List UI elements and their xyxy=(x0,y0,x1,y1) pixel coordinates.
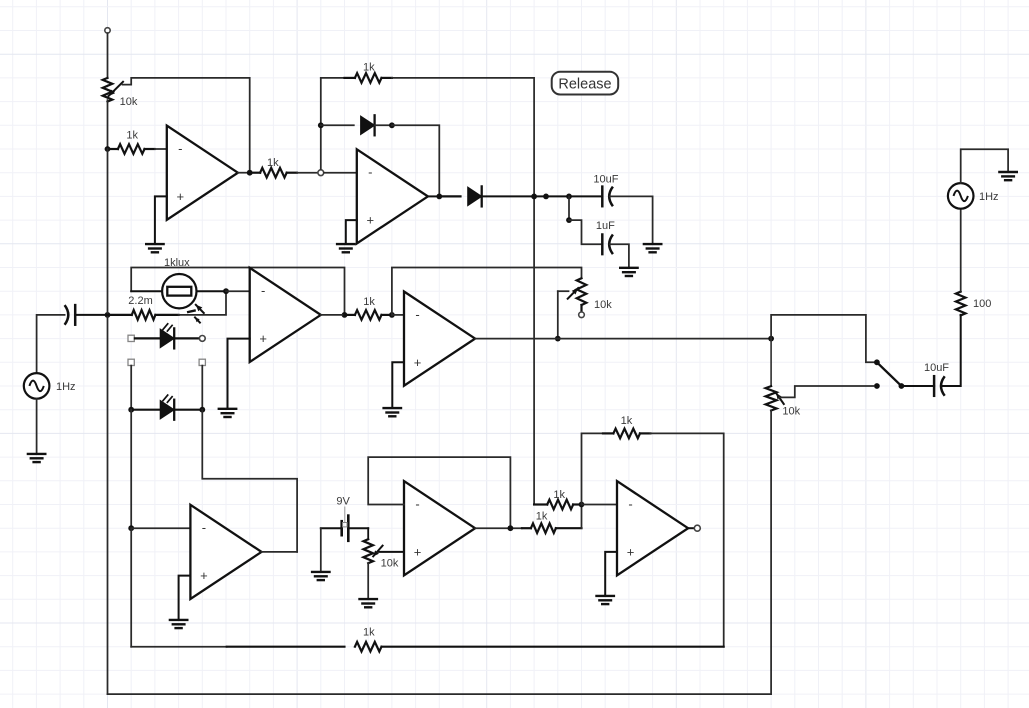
wire xyxy=(76,314,108,316)
wire (bus up to switch) xyxy=(771,315,874,362)
wire xyxy=(37,315,65,373)
wire (pot1 wiper to op-amp U1 output) xyxy=(123,78,250,173)
wire xyxy=(201,366,203,410)
svg-text:2.2m: 2.2m xyxy=(128,295,152,307)
wire (U4 output bus) xyxy=(475,338,771,340)
ground xyxy=(337,244,354,252)
node xyxy=(318,122,324,128)
wire xyxy=(581,505,583,529)
wire xyxy=(482,195,534,197)
svg-text:+: + xyxy=(414,544,422,559)
wire xyxy=(107,33,109,78)
ground xyxy=(146,244,163,252)
ground xyxy=(597,596,614,604)
node (open junction) xyxy=(318,170,324,176)
wire (U7 output) xyxy=(688,527,694,529)
svg-text:+: + xyxy=(259,331,267,346)
LED D4 (row 2) xyxy=(131,395,202,420)
wire xyxy=(375,124,392,126)
svg-text:+: + xyxy=(627,544,635,559)
wire (pot wiper to signal bus) xyxy=(558,291,569,338)
wire xyxy=(610,196,653,243)
svg-text:1Hz: 1Hz xyxy=(979,191,999,203)
node xyxy=(531,194,537,200)
wire (pot2 wiper to switch) xyxy=(780,386,875,397)
terminal (pot open end) xyxy=(579,312,585,318)
node xyxy=(566,194,572,200)
capacitor C1 (input coupling) xyxy=(65,305,76,325)
wire (U4 + to ground) xyxy=(392,362,404,408)
svg-text:-: - xyxy=(368,165,372,180)
svg-text:1k: 1k xyxy=(536,510,548,522)
op-amp U6 xyxy=(404,481,475,575)
wire xyxy=(130,528,132,647)
wire (U5 + to ground) xyxy=(179,576,191,620)
battery V1 9V xyxy=(321,495,368,540)
diode D2 (U2 output) xyxy=(468,186,482,206)
svg-text:Release: Release xyxy=(558,76,611,92)
op-amp U7 xyxy=(617,481,688,575)
ground xyxy=(219,409,236,417)
resistor 1k (bottom loop) xyxy=(227,627,724,652)
svg-text:1k: 1k xyxy=(363,62,375,74)
resistor 1k (U7 feedback) xyxy=(603,415,650,438)
wire xyxy=(392,125,439,196)
svg-text:10k: 10k xyxy=(381,558,399,570)
wire xyxy=(130,366,132,410)
potentiometer 10k (vertical) with wiper arrow xyxy=(103,78,138,108)
terminal (output) xyxy=(694,525,700,531)
wire xyxy=(534,195,602,197)
voltage source V2 1Hz (right) xyxy=(948,183,999,209)
wire xyxy=(297,172,318,174)
wire (U6 output) xyxy=(475,527,522,529)
potentiometer 10k (release pot) with wiper arrow xyxy=(766,339,801,418)
op-amp U3 xyxy=(250,268,321,362)
ground xyxy=(999,172,1016,180)
wire xyxy=(392,78,534,505)
svg-text:1k: 1k xyxy=(126,130,138,142)
node xyxy=(199,407,205,413)
switch SW1 (SPDT) xyxy=(874,359,904,389)
voltage source V3 1Hz (input) xyxy=(24,373,76,399)
svg-text:1klux: 1klux xyxy=(164,257,190,269)
op-amp U5 xyxy=(190,505,261,599)
wire xyxy=(36,399,38,454)
wire (U1 output) xyxy=(238,172,250,174)
node xyxy=(128,407,134,413)
wire xyxy=(961,149,1008,183)
wire xyxy=(226,290,250,292)
node xyxy=(579,502,585,508)
svg-text:-: - xyxy=(261,283,265,298)
wire xyxy=(131,646,227,648)
wire xyxy=(960,209,962,291)
ground xyxy=(620,268,637,276)
wire (U7 + to ground) xyxy=(605,552,617,596)
resistor 2.2m (input) xyxy=(108,295,179,320)
wire (photoresistor feedback) xyxy=(131,268,344,315)
wire xyxy=(107,100,109,149)
svg-text:+: + xyxy=(200,568,208,583)
potentiometer 10k (offset) with wiper arrow xyxy=(363,528,398,569)
svg-text:100: 100 xyxy=(973,298,991,310)
svg-text:1uF: 1uF xyxy=(596,220,615,232)
node xyxy=(223,288,229,294)
terminal (square, LED1 anode) xyxy=(128,335,134,341)
node xyxy=(555,336,561,342)
potentiometer 10k (U4 gain) with wiper arrow xyxy=(568,278,613,312)
wire (outer loop) xyxy=(108,411,772,695)
svg-text:1k: 1k xyxy=(267,157,279,169)
resistor 1k (U6 to U7) xyxy=(522,510,582,533)
svg-text:1k: 1k xyxy=(553,489,565,501)
node xyxy=(389,312,395,318)
photoresistor 1klux xyxy=(131,257,226,323)
wire xyxy=(179,291,226,315)
wire xyxy=(650,433,723,646)
wire xyxy=(321,77,345,79)
node xyxy=(105,312,111,318)
wire xyxy=(367,563,369,599)
node xyxy=(543,194,549,200)
wire (vertical from junction up) xyxy=(320,78,322,169)
node xyxy=(389,122,395,128)
resistor 1k (U2 feedback) xyxy=(345,62,392,83)
svg-text:-: - xyxy=(202,520,206,535)
resistor 100 (vertical) xyxy=(956,292,991,316)
wire xyxy=(131,527,190,529)
terminal (square, left) xyxy=(128,359,134,365)
svg-text:-: - xyxy=(415,497,419,512)
wire (pot wiper to U6 +) xyxy=(379,551,404,553)
svg-text:+: + xyxy=(177,189,185,204)
op-amp U2 xyxy=(357,149,428,243)
ground xyxy=(360,599,377,607)
node xyxy=(105,146,111,152)
wire (U2 output) xyxy=(428,195,439,197)
capacitor 10uF (right) xyxy=(924,362,949,396)
wire (battery - to ground) xyxy=(320,528,322,571)
ground xyxy=(170,620,187,628)
capacitor 1uF xyxy=(596,220,615,254)
wire xyxy=(610,244,629,267)
terminal (top-left input) xyxy=(105,28,110,33)
wire (U6 - input) xyxy=(368,457,510,528)
node xyxy=(247,170,253,176)
node xyxy=(342,312,348,318)
node xyxy=(128,525,134,531)
svg-text:10uF: 10uF xyxy=(924,362,949,374)
wire xyxy=(941,315,960,386)
svg-text:10k: 10k xyxy=(594,299,612,311)
resistor 1k (U1 inverting input) xyxy=(108,130,155,154)
resistor 1k (U3 to U4) xyxy=(345,296,392,320)
wire xyxy=(439,195,460,197)
op-amp U1 xyxy=(167,126,238,220)
svg-text:1Hz: 1Hz xyxy=(56,381,76,393)
wire (U1 + to ground) xyxy=(155,196,167,243)
ground xyxy=(644,244,661,252)
ground xyxy=(312,572,329,580)
wire xyxy=(901,385,934,387)
node xyxy=(566,217,572,223)
resistor 1k (U7 input) xyxy=(534,489,581,509)
label Release (annotation badge) xyxy=(552,72,619,95)
wire xyxy=(321,124,354,126)
wire (U3 output) xyxy=(321,314,345,316)
svg-text:10k: 10k xyxy=(782,405,800,417)
svg-text:-: - xyxy=(178,141,182,156)
wire xyxy=(130,410,132,529)
svg-text:10uF: 10uF xyxy=(593,173,618,185)
resistor 1k (U1 to U2) xyxy=(250,157,297,178)
wire xyxy=(324,172,357,174)
svg-text:-: - xyxy=(628,497,632,512)
wire (to 1uF) xyxy=(568,196,570,220)
diode D1 (U2 clamp) xyxy=(361,115,375,135)
svg-text:+: + xyxy=(367,213,375,228)
wire (U3 + to ground) xyxy=(228,339,250,409)
wire (U7 feedback) xyxy=(582,433,604,504)
svg-text:+: + xyxy=(414,355,422,370)
wire (U5 output) xyxy=(262,551,298,553)
wire (U2 + to ground) xyxy=(346,220,357,244)
capacitor 10uF (top) xyxy=(593,173,618,206)
wire (U4 feedback up) xyxy=(392,268,582,315)
wire (long vertical left rail) xyxy=(107,149,109,694)
node xyxy=(508,525,514,531)
ground xyxy=(28,454,45,462)
terminal (circle, LED1 cathode) xyxy=(199,336,205,342)
wire (LED2 to U5 loop) xyxy=(202,410,297,552)
svg-text:1k: 1k xyxy=(363,296,375,308)
svg-text:-: - xyxy=(415,307,419,322)
wire xyxy=(392,314,404,316)
wire xyxy=(569,220,602,244)
svg-text:1k: 1k xyxy=(363,627,375,639)
terminal (square, right) xyxy=(199,359,205,365)
node xyxy=(436,194,442,200)
wire xyxy=(155,148,167,150)
ground xyxy=(384,408,401,416)
node xyxy=(768,336,774,342)
svg-text:10k: 10k xyxy=(120,96,138,108)
svg-text:1k: 1k xyxy=(621,415,633,427)
wire xyxy=(582,504,618,506)
svg-text:9V: 9V xyxy=(336,495,350,507)
LED D3 (row 1) xyxy=(135,324,200,349)
op-amp U4 xyxy=(404,292,475,386)
